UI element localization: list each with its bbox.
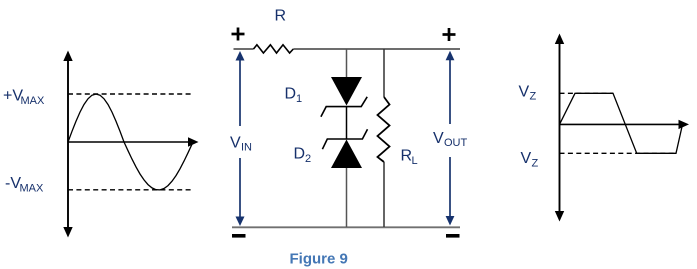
svg-text:V: V: [519, 83, 530, 100]
svg-text:Z: Z: [530, 91, 537, 103]
svg-text:IN: IN: [241, 142, 252, 154]
svg-text:2: 2: [305, 153, 311, 165]
svg-text:L: L: [412, 155, 418, 167]
svg-text:D: D: [294, 146, 306, 163]
svg-text:R: R: [401, 148, 413, 165]
svg-text:MAX: MAX: [20, 183, 45, 195]
svg-text:Z: Z: [532, 158, 539, 170]
svg-text:V: V: [521, 150, 532, 167]
svg-text:1: 1: [296, 93, 302, 105]
svg-text:Figure 9: Figure 9: [290, 251, 348, 268]
svg-text:OUT: OUT: [444, 137, 468, 149]
svg-text:MAX: MAX: [21, 95, 46, 107]
svg-text:D: D: [285, 86, 297, 103]
svg-text:V: V: [433, 130, 444, 147]
svg-text:V: V: [230, 135, 241, 152]
svg-text:R: R: [275, 8, 287, 25]
